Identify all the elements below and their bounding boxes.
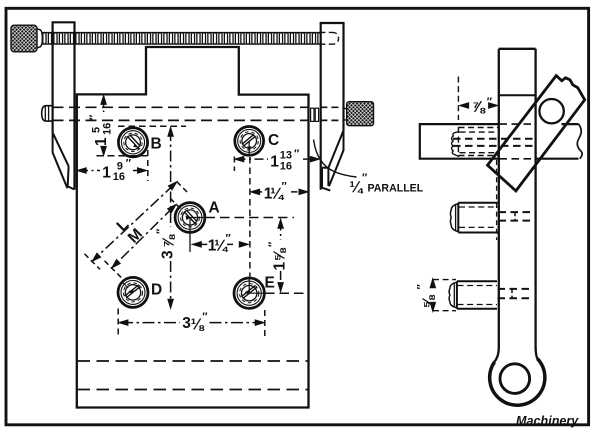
- clamp screw hidden lines through right clamp bar: [320, 107, 343, 120]
- svg-text:″: ″: [267, 241, 279, 247]
- left clamp bar: [53, 22, 75, 189]
- svg-text:1: 1: [93, 137, 110, 146]
- left clamp bar jaw: [53, 132, 75, 189]
- leader line to 1/4 parallel: [314, 140, 357, 178]
- extension lines below D and E (dashed): [118, 309, 265, 338]
- upper screw hidden in rail: tip scallops: [452, 132, 460, 157]
- upper rail (left part): [420, 124, 499, 159]
- svg-text:E: E: [265, 275, 275, 292]
- dashed tangent line over B and C (workpiece hidden edge): [118, 125, 186, 127]
- dimension 1 5/16 (vertical): [103, 98, 105, 153]
- dimension 1 13/16 (horizontal): [237, 158, 318, 160]
- svg-text:D: D: [151, 282, 162, 299]
- extension line left of C (vertical dashed): [233, 157, 235, 172]
- lower screw (solid, at D/E level): [457, 281, 497, 308]
- svg-text:″: ″: [226, 232, 232, 244]
- clamp screw knob (right, knurled): [347, 102, 374, 126]
- dimension 3 7/8 (vertical): [170, 130, 172, 305]
- diamond extension dash from M arrow toward A: [170, 198, 182, 210]
- svg-text:″: ″: [487, 96, 493, 108]
- hole E: [234, 278, 264, 308]
- clamp screw tip (left, protruding): [42, 106, 52, 121]
- middle screw root lines (dashed): [459, 207, 498, 227]
- top screw hidden end (dashed, inside right bar): [320, 32, 338, 44]
- clamp screw visible thread stub (between plate and right bar): [311, 108, 319, 121]
- dimension 3 1/8 (horizontal, bottom): [121, 322, 262, 324]
- svg-text:″: ″: [155, 228, 167, 234]
- svg-text:Machinery: Machinery: [516, 414, 579, 428]
- dimension 1 1/4 right of C (horizontal): [254, 191, 263, 193]
- extension line C center to E (vertical dashed): [249, 157, 251, 277]
- diamond extension dash lower-left (L): [85, 254, 101, 269]
- svg-text:⅝: ⅝: [421, 295, 438, 309]
- clamp bar side view (vertical bar): [499, 48, 536, 50]
- top screw threaded rod: [42, 32, 320, 44]
- svg-text:PARALLEL: PARALLEL: [368, 183, 424, 195]
- svg-text:″: ″: [282, 180, 288, 192]
- dim text 1 5/16 (rotated): [88, 114, 114, 146]
- upper rail (right part with break): [537, 124, 579, 159]
- dimension 5/8 (vertical): [432, 282, 434, 310]
- svg-text:1: 1: [102, 165, 111, 182]
- dimension M (diagonal): [115, 208, 173, 265]
- extension line for 7/8 dim (vertical dashed): [457, 77, 459, 158]
- bar shoulder line: [499, 94, 536, 96]
- jig plate outline (front view): [77, 47, 309, 408]
- svg-text:16: 16: [113, 171, 125, 183]
- upper screw hidden outline (dashed): [459, 128, 499, 156]
- right clamp bar jaw: [322, 130, 344, 190]
- hole A: [175, 203, 205, 233]
- hidden edge left of bar (dashed vertical): [496, 160, 498, 240]
- right clamp bar: [321, 23, 344, 190]
- svg-text:⅝: ⅝: [272, 248, 289, 262]
- svg-text:″: ″: [88, 114, 100, 120]
- top screw knurled knob (left): [37, 29, 43, 48]
- plate hidden base lines (dashed): [78, 361, 309, 390]
- dim text 3 7/8 (rotated): [155, 228, 178, 259]
- lower screw core through bar (heavy dashes): [498, 289, 534, 298]
- upper screw core hidden (heavy dashes through bar): [453, 139, 536, 146]
- hole D: [118, 277, 148, 307]
- hole C: [235, 126, 264, 155]
- lower screw root lines (dashed): [458, 286, 498, 305]
- svg-text:″: ″: [294, 148, 300, 160]
- dimension 7/8 (horizontal): [462, 105, 497, 107]
- svg-text:″: ″: [416, 284, 428, 290]
- svg-text:⅞: ⅞: [161, 234, 178, 248]
- upper rail hidden edges through bar (dashed): [500, 124, 536, 159]
- hole in tilted piece: [539, 99, 563, 123]
- dimension 1 9/16 (horizontal): [79, 170, 145, 172]
- node A center line down (solid): [189, 233, 191, 252]
- svg-text:16: 16: [102, 123, 114, 135]
- svg-text:″: ″: [126, 158, 132, 170]
- diamond extension dash lower-left (M): [105, 261, 123, 279]
- diamond extension dash from L arrow toward A: [177, 182, 190, 195]
- middle screw (solid, at A level): [458, 203, 498, 233]
- middle screw core through bar (heavy dashes): [499, 212, 534, 221]
- svg-text:C: C: [268, 132, 279, 149]
- svg-text:1: 1: [272, 262, 289, 271]
- tilted workpiece (angle plate): [488, 76, 585, 191]
- dashed tangent line below B: [96, 155, 147, 157]
- lower screw hole extension lines (dashed): [433, 280, 456, 311]
- svg-text:1: 1: [270, 153, 279, 170]
- svg-text:⅞: ⅞: [472, 99, 486, 116]
- dim text 5/8 (rotated, right view): [416, 284, 438, 309]
- node A center line right (dashed): [206, 217, 295, 219]
- svg-text:″: ″: [202, 311, 208, 323]
- svg-text:A: A: [209, 200, 220, 217]
- svg-text:16: 16: [280, 160, 292, 172]
- hole B: [118, 128, 147, 157]
- clamp screw hidden lines through plate: [53, 107, 309, 120]
- eye ring at bar bottom: [494, 348, 537, 362]
- dimension L (diagonal): [95, 185, 173, 258]
- svg-text:3: 3: [160, 250, 177, 259]
- dimension 1 5/8 (vertical): [280, 222, 282, 290]
- extension line right of B (vertical dashed): [147, 140, 149, 181]
- dimension 1 1/4 right of A (horizontal): [200, 243, 208, 245]
- dim text 1 5/8 (rotated): [267, 241, 289, 271]
- node E center line right (dashed): [265, 292, 308, 294]
- svg-text:B: B: [151, 136, 162, 153]
